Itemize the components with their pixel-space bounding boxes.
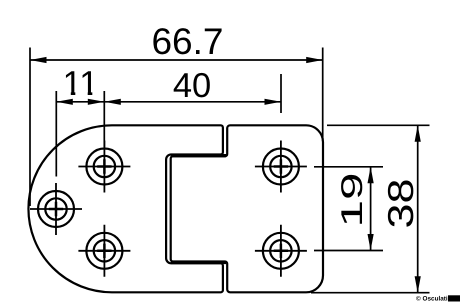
svg-text:66.7: 66.7 xyxy=(151,21,223,62)
extension line, 11 left xyxy=(55,91,57,177)
right hinge leaf outline (rounded rectangle with knuckle tongue) xyxy=(171,125,323,292)
screw hole H3 (lower left leaf) xyxy=(78,225,130,277)
arrowhead 38 top xyxy=(415,125,421,142)
extension line, 11/40 shared xyxy=(103,91,105,147)
extension line, 19 top xyxy=(314,166,383,168)
svg-text:38: 38 xyxy=(380,179,421,229)
screw hole H4 (upper right leaf) xyxy=(255,141,307,193)
arrowhead 11 left xyxy=(56,99,73,105)
notch top edge (merged double line) xyxy=(171,154,226,157)
svg-text:40: 40 xyxy=(173,67,211,105)
notch bottom edge (merged double line) xyxy=(171,261,226,264)
arrowhead 19 bottom xyxy=(368,234,374,251)
arrowhead 19 top xyxy=(368,167,374,184)
screw hole H5 (lower right leaf) xyxy=(255,225,307,277)
arrowhead 40 left xyxy=(104,99,121,105)
extension line, 38 top xyxy=(327,124,430,126)
screw hole H2 (upper left leaf) xyxy=(78,141,130,193)
svg-text:19: 19 xyxy=(336,173,369,228)
arrowhead 38 bottom xyxy=(415,276,421,293)
extension line, 66.7 right xyxy=(322,48,324,142)
extension line, 19 bottom xyxy=(314,250,383,252)
dimension line 38 xyxy=(417,125,419,292)
arrowhead 66.7 left xyxy=(30,57,47,63)
dimension line 19 xyxy=(370,167,372,251)
dimension line 66.7 xyxy=(30,59,323,61)
svg-text:11: 11 xyxy=(63,65,99,103)
extension line, 38 bottom xyxy=(311,292,430,294)
extension line, 66.7 left xyxy=(29,48,31,207)
arrowhead 11 right xyxy=(88,99,105,105)
left hinge leaf outline (D-shaped plate with central notch) xyxy=(28,125,222,292)
screw hole H1 (left, on round end) xyxy=(30,183,82,235)
arrowhead 66.7 right xyxy=(306,57,323,63)
arrowhead 40 right xyxy=(265,99,282,105)
dimension line 11 and 40 xyxy=(56,101,281,103)
corner black bar xyxy=(448,295,460,301)
svg-text:© Osculati: © Osculati xyxy=(416,295,448,302)
extension line, 40 right xyxy=(280,74,282,113)
